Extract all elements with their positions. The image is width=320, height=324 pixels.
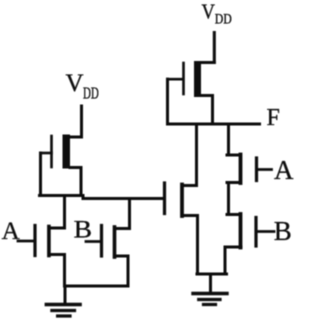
ground (right) <box>193 274 227 305</box>
transistor MA (left NMOS, input A) <box>35 226 65 256</box>
wire A gate lead <box>18 240 34 243</box>
svg-text:DD: DD <box>83 84 99 103</box>
node F label <box>267 105 280 131</box>
svg-text:DD: DD <box>215 12 232 28</box>
wire MA source down to rail <box>63 255 66 287</box>
transistor MA2 (right NMOS, input A) <box>227 155 257 184</box>
wire A drain up to node <box>63 196 66 229</box>
wire B gate lead (right) <box>258 230 275 233</box>
ground (left) <box>46 286 80 316</box>
wire M1 drain down to node <box>80 168 83 196</box>
wire bottom rail (right) <box>197 273 227 276</box>
transistor MB2 (right NMOS, input B) <box>225 214 256 248</box>
wire M3 drain up to F <box>195 124 198 186</box>
wire A gate lead (right) <box>258 168 272 171</box>
wire M2 gate tie down to F <box>166 79 169 124</box>
svg-text:B: B <box>74 217 92 244</box>
transistor MB (left NMOS, input B) <box>102 226 130 258</box>
wire M2 gate lead <box>168 78 184 81</box>
wire spine below B down to rail <box>224 247 227 274</box>
node A label (left) <box>2 218 20 245</box>
node VDD label (right) <box>202 0 232 28</box>
wire M3 source down to rail <box>196 216 199 275</box>
transistor M3 (NMOS driven by left gate output) <box>165 183 198 216</box>
node B label (right) <box>274 216 292 246</box>
node VDD label (left) <box>66 70 99 103</box>
node A label (right) <box>274 155 294 185</box>
wire VDD stub (right) <box>213 33 216 63</box>
wire spine between A and B <box>227 183 230 215</box>
wire M1 gate tie down to node <box>39 153 42 196</box>
svg-text:A: A <box>2 218 20 245</box>
transistor M1 depletion load (left), thick channel bar <box>52 135 82 169</box>
wire MB source down to rail <box>127 256 130 286</box>
node N1 output line of left gate <box>40 196 164 199</box>
node F output line <box>168 123 260 126</box>
svg-text:V: V <box>202 0 216 23</box>
wire M1 gate lead <box>41 152 52 155</box>
svg-text:F: F <box>267 105 280 131</box>
wire B gate lead <box>86 240 100 243</box>
svg-text:V: V <box>66 70 84 97</box>
svg-text:A: A <box>274 155 294 185</box>
wire B drain up to node <box>128 199 131 229</box>
svg-text:B: B <box>274 216 292 246</box>
node B label (left) <box>74 217 92 244</box>
wire bottom rail (left) <box>65 285 129 288</box>
wire VDD stub (left) <box>80 106 83 137</box>
wire M2 drain down to F <box>211 96 214 125</box>
transistor M2 depletion load (right), thick channel bar <box>184 61 215 97</box>
wire right branch spine from F <box>227 124 230 155</box>
